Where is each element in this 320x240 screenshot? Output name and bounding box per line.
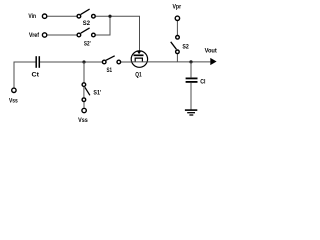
terminal Vss bottom	[82, 108, 86, 112]
wire S2' to riser up to Vin row	[96, 16, 110, 35]
svg-text:S2': S2'	[84, 40, 91, 47]
svg-text:Vss: Vss	[78, 117, 88, 124]
svg-text:Q1: Q1	[135, 71, 142, 78]
switch S2' blade	[81, 28, 90, 33]
svg-text:S1: S1	[107, 67, 113, 74]
switch S2 contacts	[77, 14, 81, 18]
wire Vpr terminal down to S2 top contact	[176, 21, 178, 35]
wire S2 to gate corner and gate drop	[96, 16, 140, 51]
svg-text:Cl: Cl	[200, 79, 205, 86]
svg-text:S2: S2	[83, 20, 91, 27]
wire Cl to ground	[190, 83, 192, 110]
svg-text:Vss: Vss	[9, 98, 18, 105]
wire Vref terminal to S2'	[47, 34, 77, 36]
terminal Vin	[42, 14, 46, 18]
wire left rail corner down to Vss terminal	[14, 62, 36, 88]
node junction dot rail/S1'	[82, 60, 85, 63]
svg-text:Vref: Vref	[29, 32, 40, 39]
wire S1 to Q1	[121, 61, 131, 63]
ground	[185, 110, 197, 115]
switch S1 contacts	[102, 60, 106, 64]
wire S1' top contact to bottom contact	[83, 87, 85, 98]
switch S2 right contacts	[176, 36, 180, 40]
svg-text:Vpr: Vpr	[173, 4, 182, 11]
switch S2 right blade	[171, 42, 177, 50]
wire Vin terminal to S2	[47, 15, 77, 17]
switch S1' contacts	[82, 83, 86, 87]
svg-text:S2: S2	[182, 44, 189, 51]
capacitor Cl plates	[186, 77, 198, 79]
wire S1' drop from rail	[83, 62, 85, 82]
svg-text:Vout: Vout	[205, 48, 217, 55]
svg-text:Vin: Vin	[28, 13, 36, 20]
wire rail Q1 to Vout arrow	[148, 61, 211, 63]
terminal Vref	[42, 33, 46, 37]
capacitor Ct plates	[35, 56, 37, 68]
wire S1' bottom contact to Vss terminal	[83, 102, 85, 108]
switch S1 blade	[106, 56, 115, 61]
wire Cl drop from rail	[190, 62, 192, 78]
transistor Q1	[131, 51, 147, 68]
terminal Vpr	[175, 16, 179, 20]
switch S2' contacts	[77, 33, 81, 37]
node junction dot row1/riser	[108, 15, 111, 18]
wire S2 bottom contact down to rail	[176, 54, 178, 62]
wire rail Ct to S1	[40, 61, 102, 63]
Vout arrow	[210, 58, 216, 65]
svg-text:Ct: Ct	[32, 72, 39, 79]
switch S1' blade	[85, 87, 90, 95]
terminal Vss left	[12, 88, 16, 92]
svg-text:S1': S1'	[93, 90, 101, 97]
node junction dot rail/Cl	[189, 60, 192, 63]
switch S2 blade	[81, 9, 90, 14]
